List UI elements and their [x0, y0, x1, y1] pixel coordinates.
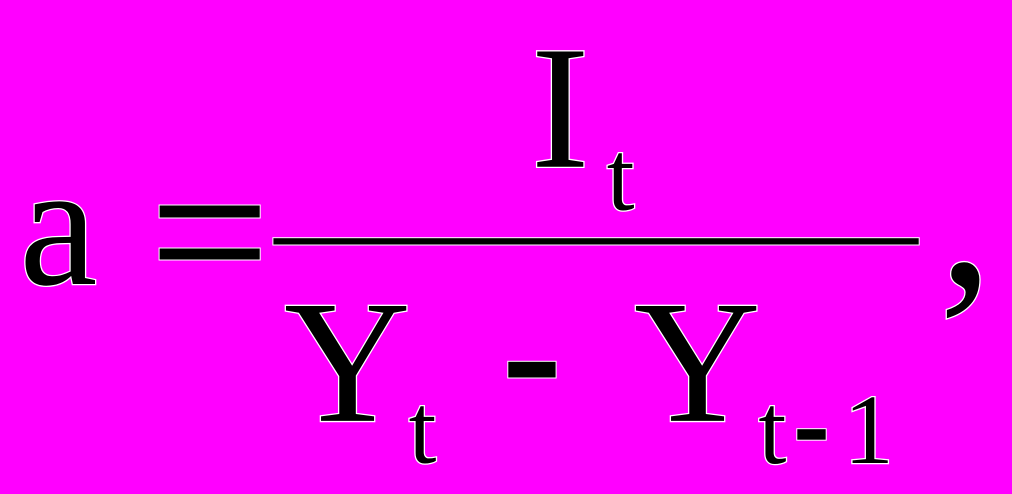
svg-text:t: t	[758, 373, 786, 485]
svg-text:,: ,	[939, 92, 994, 333]
svg-text:Y: Y	[284, 265, 411, 459]
minus sign	[508, 362, 555, 378]
svg-text:t: t	[409, 374, 437, 485]
svg-text:I: I	[531, 11, 590, 206]
equals sign bottom bar	[160, 249, 260, 260]
fraction bar	[273, 238, 918, 244]
equals sign top bar	[160, 206, 260, 218]
svg-text:t: t	[607, 121, 635, 232]
subscript minus in t-1	[797, 429, 825, 440]
svg-text:1: 1	[844, 374, 894, 485]
svg-text:a: a	[19, 128, 97, 323]
svg-text:Y: Y	[634, 265, 761, 459]
